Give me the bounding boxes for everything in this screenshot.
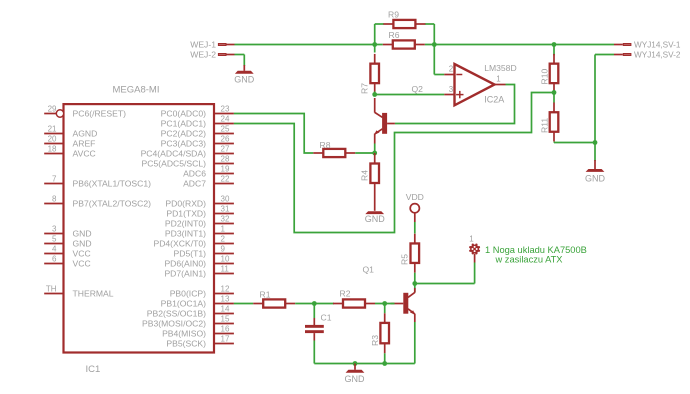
op-amp U2 IC2A LM358D: [444, 64, 505, 105]
svg-text:PD1(TXD): PD1(TXD): [166, 209, 206, 219]
svg-text:WEJ-1: WEJ-1: [190, 40, 216, 50]
connector pad WEJ-1: [190, 40, 234, 50]
resistor R11: [550, 103, 559, 142]
svg-text:PC6(/RESET): PC6(/RESET): [73, 109, 127, 119]
IC1 right pin 28 PC5(ADC5/SCL): [142, 155, 234, 169]
capacitor C1: [305, 318, 324, 341]
svg-text:Q2: Q2: [412, 84, 424, 94]
svg-text:8: 8: [52, 195, 57, 204]
svg-text:27: 27: [221, 145, 230, 154]
svg-text:AREF: AREF: [73, 139, 96, 149]
svg-text:Q1: Q1: [363, 265, 375, 275]
svg-text:2: 2: [221, 235, 226, 244]
annotation text line 2: [495, 254, 563, 264]
junction on top rail at R7/R9 column: [372, 42, 377, 47]
svg-text:PD5(T1): PD5(T1): [174, 249, 207, 259]
resistor R8: [313, 149, 355, 157]
IC1 right pin 2 PD4(XCK/T0): [153, 235, 233, 249]
svg-text:3: 3: [52, 225, 57, 234]
svg-text:GND: GND: [73, 229, 92, 239]
svg-text:16: 16: [221, 325, 230, 334]
op-amp pin 1 number: [496, 75, 501, 84]
node C junction R10/R11/feedback: [552, 90, 557, 95]
svg-text:14: 14: [221, 305, 230, 314]
node E junction R1/R2/C1: [312, 301, 317, 306]
svg-text:12: 12: [221, 285, 230, 294]
transistor Q2: [374, 98, 395, 144]
svg-text:PD0(RXD): PD0(RXD): [165, 199, 206, 209]
wire R5 to node D: [414, 273, 416, 284]
svg-text:PC2(ADC2): PC2(ADC2): [161, 129, 207, 139]
node A junction R7/Q2 collector/op-amp pin3: [372, 92, 377, 97]
wire R9 branch right vertical: [425, 24, 434, 45]
svg-text:PC4(ADC4/SDA): PC4(ADC4/SDA): [141, 149, 207, 159]
svg-text:13: 13: [221, 295, 230, 304]
wire node C to R11: [553, 93, 555, 103]
wire node A to op-amp pin 3: [375, 94, 445, 96]
svg-text:3: 3: [449, 85, 454, 94]
IC1 right pin 10 PD6(AIN0): [164, 255, 233, 269]
svg-text:1: 1: [496, 75, 501, 84]
pin symbol star KA7500B pin 1: [469, 235, 480, 255]
svg-text:MEGA8-MI: MEGA8-MI: [113, 85, 160, 96]
svg-text:IC2A: IC2A: [484, 95, 504, 105]
svg-text:2: 2: [449, 65, 454, 74]
IC1 left pin 20 AREF: [44, 135, 95, 149]
svg-text:R1: R1: [260, 290, 271, 300]
IC1 right pin 12 PB0(ICP): [170, 285, 234, 299]
IC1 left pin TH THERMAL: [44, 285, 114, 299]
svg-text:17: 17: [221, 335, 230, 344]
svg-text:GND: GND: [585, 174, 606, 184]
wire WEJ-1 to R6 left: [235, 44, 383, 46]
node D junction R5/Q1 collector/KA7500 wire: [412, 281, 417, 286]
resistor R5: [411, 234, 420, 273]
svg-text:31: 31: [221, 205, 230, 214]
wire IC pin23 to R8: [234, 114, 313, 154]
svg-text:19: 19: [221, 165, 230, 174]
junction bottom rail at R3: [382, 361, 387, 366]
IC1 right pin 17 PB5(SCK): [166, 335, 234, 349]
svg-text:ADC6: ADC6: [183, 169, 206, 179]
svg-text:32: 32: [221, 215, 230, 224]
svg-text:ADC7: ADC7: [183, 179, 206, 189]
Q1 designator label: [363, 265, 375, 275]
op-amp pin 2 number: [449, 65, 454, 74]
IC1 left pin 29 PC6(/RESET): [44, 105, 126, 119]
svg-text:R4: R4: [360, 170, 370, 181]
svg-text:PD4(XCK/T0): PD4(XCK/T0): [153, 239, 206, 249]
wire top rail to op-amp pin 2: [434, 45, 444, 75]
svg-text:PC0(ADC0): PC0(ADC0): [161, 109, 207, 119]
IC1 left pin 18 AVCC: [44, 145, 96, 159]
ground under WEJ-2: [234, 65, 255, 84]
svg-text:9: 9: [221, 245, 226, 254]
svg-text:TH: TH: [46, 285, 57, 294]
wire node C to IC pin 24 (divider sense): [234, 93, 554, 233]
transistor Q1: [391, 284, 416, 323]
svg-text:WYJ14,SV-2: WYJ14,SV-2: [634, 51, 681, 60]
wire WEJ-2 to ground: [235, 55, 245, 67]
svg-text:R5: R5: [400, 254, 410, 265]
IC1 right pin 31 PD1(TXD): [166, 205, 234, 219]
R7 label: [360, 83, 370, 94]
svg-text:GND: GND: [345, 374, 366, 384]
svg-text:22: 22: [221, 175, 230, 184]
svg-text:R7: R7: [360, 83, 370, 94]
wire R8 to node B: [355, 152, 374, 154]
IC1 left pin 6 VCC: [44, 255, 90, 269]
wire top rail to R10: [553, 45, 555, 56]
IC1 designator label: [86, 364, 101, 375]
svg-text:11: 11: [221, 265, 230, 274]
svg-text:VDD: VDD: [406, 192, 424, 202]
svg-text:PC5(ADC5/SCL): PC5(ADC5/SCL): [142, 159, 207, 169]
svg-text:15: 15: [221, 315, 230, 324]
R5 label: [400, 254, 410, 265]
svg-text:PB3(MOSI/OC2): PB3(MOSI/OC2): [142, 319, 206, 329]
IC1 right pin 14 PB2(SS/OC1B): [147, 305, 234, 319]
svg-text:THERMAL: THERMAL: [73, 289, 114, 299]
R3 label: [370, 335, 380, 346]
wire R7 to node A: [374, 92, 376, 95]
resistor R10: [550, 54, 559, 93]
resistor R2: [333, 299, 375, 307]
IC1 left pin 5 GND: [44, 235, 91, 249]
junction bottom rail at GND stem: [353, 361, 358, 366]
IC U1 MEGA8-MI box: [64, 104, 215, 352]
IC1 right pin 11 PD7(AIN1): [164, 265, 233, 279]
svg-text:PB6(XTAL1/TOSC1): PB6(XTAL1/TOSC1): [73, 179, 152, 189]
svg-text:PB2(SS/OC1B): PB2(SS/OC1B): [147, 309, 206, 319]
svg-text:PB0(ICP): PB0(ICP): [170, 289, 206, 299]
wire VDD to R5: [414, 222, 416, 234]
resistor R7: [370, 54, 379, 93]
R2 label: [340, 289, 351, 299]
wire R9 branch left vertical: [375, 24, 384, 45]
op-amp designator IC2A: [484, 95, 504, 105]
svg-text:w zasilaczu ATX: w zasilaczu ATX: [495, 254, 563, 264]
svg-text:GND: GND: [73, 239, 92, 249]
svg-text:PD7(AIN1): PD7(AIN1): [164, 269, 206, 279]
IC1 right pin 32 PD2(INT0): [165, 215, 234, 229]
wire R1 to R2: [295, 303, 334, 305]
wire node E down to C1: [313, 304, 315, 319]
svg-text:21: 21: [48, 125, 57, 134]
R10 label: [540, 69, 550, 85]
svg-text:26: 26: [221, 135, 230, 144]
svg-text:1: 1: [221, 225, 226, 234]
IC1 part name label MEGA8-MI: [113, 85, 160, 96]
annotation text line 1: [485, 245, 587, 255]
wire IC pin13 to R1: [234, 303, 253, 305]
resistor R1: [253, 299, 295, 307]
svg-text:VCC: VCC: [73, 259, 91, 269]
svg-text:R8: R8: [320, 140, 331, 150]
svg-text:4: 4: [52, 245, 57, 254]
wire Q2 emitter to node B: [374, 144, 376, 154]
supply symbol VDD: [406, 192, 424, 222]
wire Q1 emitter to bottom rail: [414, 322, 416, 364]
IC1 right pin 16 PB4(MISO): [162, 325, 234, 339]
svg-text:5: 5: [52, 235, 57, 244]
node F junction R2/Q1 base/R3: [382, 301, 387, 306]
IC1 right pin 15 PB3(MOSI/OC2): [142, 315, 234, 329]
svg-text:28: 28: [221, 155, 230, 164]
svg-text:PC1(ADC1): PC1(ADC1): [161, 119, 207, 129]
svg-text:AVCC: AVCC: [73, 149, 96, 159]
svg-text:AGND: AGND: [73, 129, 98, 139]
IC1 left pin 7 PB6(XTAL1/TOSC1): [44, 175, 151, 189]
svg-text:PD3(INT1): PD3(INT1): [165, 229, 206, 239]
IC1 left pin 3 GND: [44, 225, 91, 239]
svg-text:GND: GND: [234, 74, 255, 84]
wire C1 to bottom rail: [313, 341, 315, 364]
svg-text:R3: R3: [370, 335, 380, 346]
svg-text:20: 20: [48, 135, 57, 144]
svg-text:PB7(XTAL2/TOSC2): PB7(XTAL2/TOSC2): [73, 199, 152, 209]
svg-text:PD2(INT0): PD2(INT0): [165, 219, 206, 229]
junction on top rail at op-amp pin2/R9 column: [432, 42, 437, 47]
ground bottom middle: [345, 364, 366, 385]
svg-text:1: 1: [469, 235, 474, 244]
wire op-amp output down to Q2 base: [395, 85, 515, 124]
svg-text:R2: R2: [340, 289, 351, 299]
IC1 right pin 13 PB1(OC1A): [161, 295, 234, 309]
svg-text:WYJ14,SV-1: WYJ14,SV-1: [634, 41, 681, 50]
wire star pin to node D: [415, 254, 475, 284]
IC1 right pin 19 ADC6: [183, 165, 234, 179]
svg-text:7: 7: [52, 175, 57, 184]
connector pad WYJ14,SV-2: [614, 51, 681, 60]
svg-text:23: 23: [221, 105, 230, 114]
svg-text:R6: R6: [389, 30, 400, 40]
svg-text:PB1(OC1A): PB1(OC1A): [161, 299, 207, 309]
resistor R3: [380, 313, 389, 353]
svg-text:29: 29: [48, 105, 57, 114]
resistor R4: [370, 153, 379, 183]
R1 label: [260, 290, 271, 300]
svg-text:R11: R11: [540, 118, 550, 133]
wire R3 to bottom rail: [384, 353, 386, 363]
connector pad WEJ-2: [190, 50, 234, 60]
R11 label: [540, 118, 550, 133]
IC1 right pin 24 PC1(ADC1): [161, 115, 234, 129]
node B junction R8/Q2 emitter/R4: [372, 151, 377, 156]
wire bottom rail: [314, 363, 415, 365]
IC1 left pin 21 AGND: [44, 125, 97, 139]
connector pad WYJ14,SV-1: [614, 41, 681, 50]
svg-text:PC3(ADC3): PC3(ADC3): [161, 139, 207, 149]
svg-text:PB4(MISO): PB4(MISO): [162, 329, 206, 339]
Q2 designator label: [412, 84, 424, 94]
wire node F to R3: [384, 304, 386, 314]
svg-text:24: 24: [221, 115, 230, 124]
svg-text:6: 6: [52, 255, 57, 264]
svg-text:30: 30: [221, 195, 230, 204]
IC1 right pin 22 ADC7: [183, 175, 234, 189]
IC1 right pin 27 PC4(ADC4/SDA): [141, 145, 234, 159]
wire R11 bottom to GND column: [554, 141, 595, 144]
R9 label: [388, 10, 399, 20]
ground bottom right: [585, 160, 606, 184]
svg-text:GND: GND: [365, 214, 386, 224]
ground under R4: [365, 183, 386, 224]
R4 label: [360, 170, 370, 181]
svg-text:C1: C1: [321, 313, 332, 323]
resistor R9: [383, 20, 425, 28]
IC1 right pin 23 PC0(ADC0): [161, 105, 234, 119]
wire top rail to R7: [374, 45, 376, 53]
IC1 right pin 26 PC3(ADC3): [161, 135, 234, 149]
IC1 right pin 30 PD0(RXD): [165, 195, 233, 209]
svg-text:WEJ-2: WEJ-2: [190, 50, 216, 60]
IC1 right pin 25 PC2(ADC2): [161, 125, 234, 139]
op-amp value label LM358D: [484, 63, 516, 73]
wire R2 to node F: [375, 303, 395, 305]
junction WYJ-2/R11 ground node: [593, 140, 598, 145]
wire WYJ-2 to GND column: [595, 55, 614, 162]
IC1 right pin 1 PD3(INT1): [165, 225, 234, 239]
wire R10 to node C: [553, 90, 555, 93]
C1 label: [321, 313, 332, 323]
op-amp pin 3 number: [449, 85, 454, 94]
svg-text:PD6(AIN0): PD6(AIN0): [164, 259, 206, 269]
svg-text:IC1: IC1: [86, 364, 101, 375]
IC1 right pin 9 PD5(T1): [174, 245, 234, 259]
svg-text:R10: R10: [540, 69, 550, 85]
resistor R6: [383, 40, 425, 48]
IC1 left pin 8 PB7(XTAL2/TOSC2): [44, 195, 151, 209]
IC1 left pin 4 VCC: [44, 245, 90, 259]
wire R6 right to WYJ-1 pad: [425, 44, 614, 46]
svg-text:10: 10: [221, 255, 230, 264]
svg-text:25: 25: [221, 125, 230, 134]
svg-text:R9: R9: [388, 10, 399, 20]
svg-text:LM358D: LM358D: [484, 63, 516, 73]
R8 label: [320, 140, 331, 150]
junction on top rail at R10 column: [552, 42, 557, 47]
svg-text:PB5(SCK): PB5(SCK): [166, 339, 206, 349]
svg-text:VCC: VCC: [73, 249, 91, 259]
R6 label: [389, 30, 400, 40]
svg-text:18: 18: [48, 145, 57, 154]
